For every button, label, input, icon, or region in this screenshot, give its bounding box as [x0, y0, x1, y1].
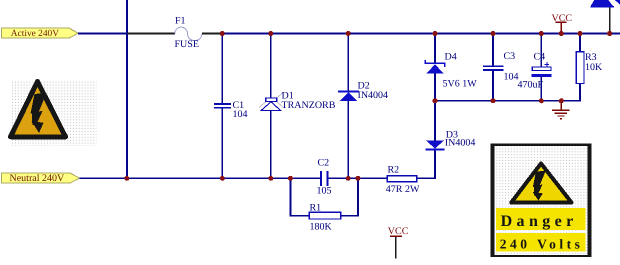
svg-text:IN4004: IN4004	[445, 137, 476, 148]
svg-text:104: 104	[233, 109, 248, 120]
svg-text:C3: C3	[504, 51, 516, 62]
wire: vertical branch at x=127	[126, 0, 128, 178]
power port VCC (bottom)	[388, 226, 409, 259]
svg-text:TRANZORB: TRANZORB	[282, 100, 336, 111]
wire: Neutral rail	[80, 177, 321, 179]
resistor R2 47R 2W	[386, 164, 420, 195]
svg-text:VCC: VCC	[388, 226, 409, 237]
wire: top Active rail	[222, 33, 620, 35]
svg-text:240 Volts: 240 Volts	[500, 236, 584, 251]
danger sign	[492, 145, 591, 256]
svg-text:C4: C4	[534, 52, 546, 63]
svg-text:Danger: Danger	[501, 213, 578, 230]
capacitor C4 470uF	[518, 34, 552, 101]
svg-text:47R 2W: 47R 2W	[386, 184, 420, 195]
capacitor C3	[483, 34, 519, 101]
svg-text:180K: 180K	[310, 221, 333, 232]
fuse F1	[175, 16, 202, 51]
junction dots: lower VCC rail	[433, 98, 564, 103]
ground	[552, 101, 570, 119]
diode D3 IN4004	[417, 101, 476, 179]
svg-text:F1: F1	[175, 16, 186, 27]
warning sign (left)	[11, 80, 97, 146]
diode D2 IN4004	[338, 34, 388, 179]
svg-text:10K: 10K	[585, 62, 603, 73]
svg-text:105: 105	[317, 186, 332, 197]
wire: Active rail from port to vertical	[78, 33, 128, 35]
svg-text:Active 240V: Active 240V	[11, 29, 59, 39]
power port VCC (top)	[552, 13, 573, 34]
port: Active 240V	[2, 28, 79, 39]
svg-text:C2: C2	[318, 157, 330, 168]
power arrow (top right, clipped)	[591, 0, 620, 34]
diode D1 (tranzorb)	[259, 34, 336, 179]
svg-text:FUSE: FUSE	[175, 39, 199, 50]
svg-text:5V6 1W: 5V6 1W	[443, 79, 478, 90]
capacitor C2 105	[317, 157, 388, 196]
svg-text:Neutral 240V: Neutral 240V	[10, 173, 65, 184]
svg-text:104: 104	[504, 72, 519, 83]
zener D4 5V6 1W	[425, 34, 477, 101]
svg-text:D4: D4	[445, 52, 457, 63]
svg-text:R2: R2	[388, 164, 400, 175]
junction dots: top rail	[220, 31, 612, 36]
wire: black stub fuse to node	[202, 33, 223, 35]
svg-text:IN4004: IN4004	[358, 90, 389, 101]
resistor R3 10K	[576, 34, 603, 84]
wire: black stub to fuse F1	[128, 33, 176, 35]
junction dots: neutral rail	[124, 176, 360, 181]
svg-text:470uF: 470uF	[518, 80, 544, 91]
svg-text:R1: R1	[310, 202, 322, 213]
resistor R1 180K with loop wires	[290, 178, 358, 232]
capacitor C1	[214, 34, 248, 179]
port: Neutral 240V	[2, 173, 80, 184]
wire: lower VCC rail	[435, 83, 580, 100]
